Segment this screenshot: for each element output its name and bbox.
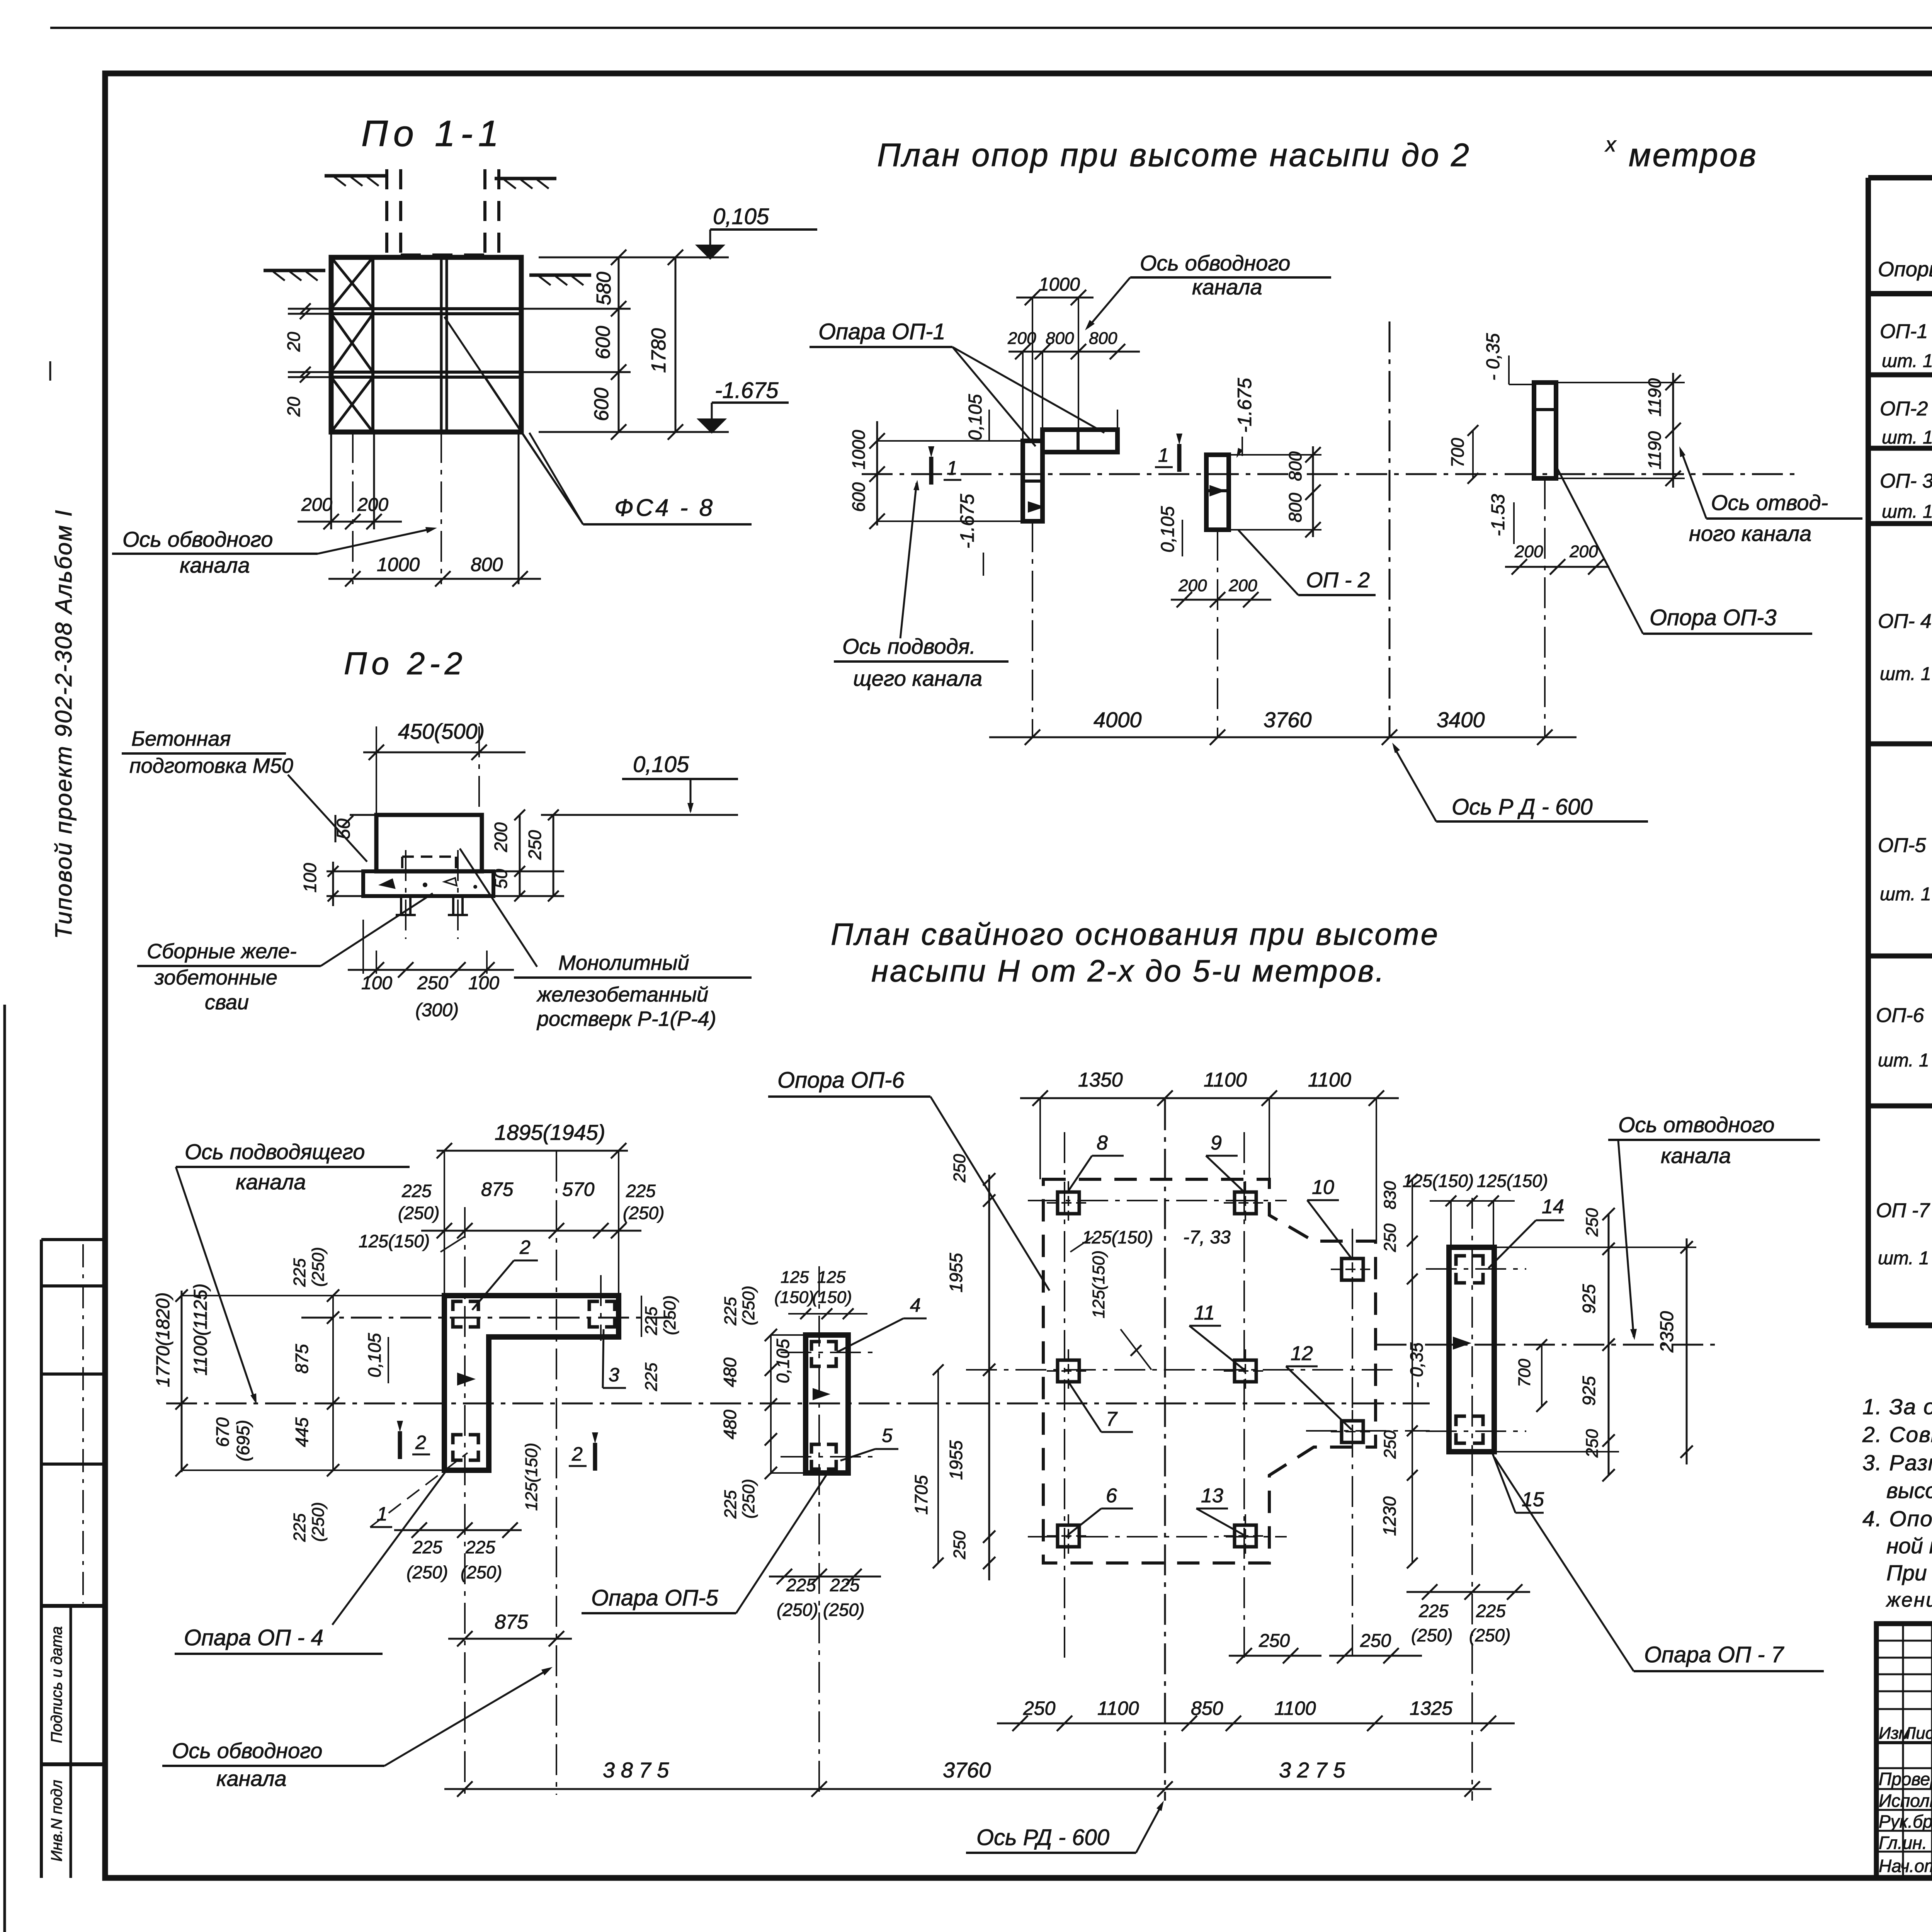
- svg-text:50: 50: [333, 818, 354, 839]
- svg-text:Опора ОП-3: Опора ОП-3: [1650, 605, 1777, 630]
- svg-text:- 0,35: - 0,35: [1483, 333, 1503, 381]
- svg-text:600: 600: [849, 482, 869, 512]
- svg-text:700: 700: [1447, 438, 1468, 468]
- svg-text:250: 250: [1583, 1208, 1602, 1237]
- svg-text:Типовой проект 902-2-308: Типовой проект 902-2-308 Альбом I: [51, 509, 77, 939]
- svg-text:Ось обводного: Ось обводного: [1140, 251, 1290, 275]
- svg-text:1100: 1100: [1204, 1069, 1247, 1091]
- svg-text:480: 480: [720, 1410, 740, 1439]
- svg-text:225: 225: [626, 1181, 656, 1201]
- svg-text:шт. 1: шт. 1: [1882, 502, 1932, 522]
- svg-text:50: 50: [491, 869, 511, 889]
- svg-text:125(150): 125(150): [1089, 1250, 1108, 1318]
- svg-text:щего канала: щего канала: [853, 666, 982, 690]
- svg-text:Опара ОП - 7: Опара ОП - 7: [1644, 1642, 1785, 1667]
- svg-text:План опор при высоте насып: План опор при высоте насыпи до 2: [877, 137, 1471, 173]
- svg-text:800: 800: [1089, 329, 1117, 348]
- svg-text:При привязке к конкретным: При привязке к конкретным условиям, глуб…: [1886, 1561, 1932, 1585]
- svg-text:Ось обводного: Ось обводного: [122, 527, 273, 551]
- svg-text:Бетонная: Бетонная: [131, 727, 231, 750]
- svg-text:125: 125: [781, 1268, 809, 1287]
- svg-text:метров: метров: [1629, 137, 1758, 173]
- svg-text:830: 830: [1381, 1181, 1400, 1209]
- svg-text:200: 200: [357, 495, 388, 515]
- svg-text:-1.675: -1.675: [1234, 378, 1255, 433]
- svg-text:800: 800: [1285, 451, 1305, 481]
- svg-text:Провер: Провер: [1879, 1769, 1932, 1789]
- svg-text:875: 875: [292, 1344, 312, 1374]
- svg-text:125(150): 125(150): [1477, 1171, 1548, 1191]
- svg-text:20: 20: [284, 396, 304, 417]
- svg-text:1770(1820): 1770(1820): [153, 1292, 173, 1387]
- svg-text:3 2 7 5: 3 2 7 5: [1279, 1758, 1345, 1782]
- svg-text:канала: канала: [180, 553, 250, 577]
- svg-text:580: 580: [593, 272, 615, 305]
- svg-text:ОП-2: ОП-2: [1880, 398, 1928, 420]
- svg-text:ОП- 4: ОП- 4: [1878, 610, 1932, 633]
- svg-text:1. За относительную отм. 0,: 1. За относительную отм. 0,00 принята аб…: [1862, 1395, 1932, 1419]
- svg-text:сваи: сваи: [205, 991, 249, 1014]
- svg-text:(250): (250): [406, 1562, 448, 1582]
- svg-text:250: 250: [1381, 1223, 1400, 1252]
- svg-text:0,105: 0,105: [633, 752, 689, 777]
- svg-text:1955: 1955: [946, 1253, 966, 1293]
- svg-text:570: 570: [562, 1179, 595, 1200]
- svg-text:канала: канала: [1661, 1143, 1731, 1168]
- svg-text:1: 1: [947, 457, 957, 479]
- svg-text:200: 200: [1178, 576, 1207, 595]
- svg-text:6: 6: [1106, 1485, 1117, 1507]
- svg-text:225: 225: [412, 1537, 442, 1557]
- svg-text:Ось Р Д - 600: Ось Р Д - 600: [1452, 794, 1593, 820]
- svg-text:1000: 1000: [849, 430, 869, 469]
- svg-text:10: 10: [1312, 1176, 1334, 1199]
- svg-text:8: 8: [1097, 1132, 1108, 1154]
- svg-text:1: 1: [1158, 444, 1169, 466]
- svg-text:(300): (300): [415, 1000, 459, 1020]
- svg-text:Опара ОП-1: Опара ОП-1: [818, 319, 946, 344]
- svg-text:250: 250: [1583, 1429, 1602, 1458]
- svg-text:225: 225: [290, 1513, 309, 1542]
- svg-text:0,105: 0,105: [713, 204, 769, 229]
- svg-text:9: 9: [1211, 1132, 1222, 1154]
- svg-text:200: 200: [491, 822, 511, 852]
- svg-text:250: 250: [1259, 1631, 1290, 1651]
- svg-text:ростверк Р-1(Р-4): ростверк Р-1(Р-4): [536, 1007, 716, 1031]
- svg-text:шт. 1: шт. 1: [1878, 1050, 1929, 1071]
- svg-text:2350: 2350: [1657, 1311, 1677, 1353]
- svg-text:Ось подводя.: Ось подводя.: [842, 634, 976, 658]
- svg-text:(250): (250): [398, 1203, 439, 1223]
- svg-text:(250): (250): [823, 1600, 864, 1620]
- svg-text:250: 250: [417, 973, 448, 993]
- svg-text:125(150): 125(150): [1403, 1171, 1474, 1191]
- svg-text:3760: 3760: [1264, 707, 1312, 732]
- svg-text:925: 925: [1579, 1284, 1599, 1314]
- svg-text:(250): (250): [461, 1562, 502, 1582]
- svg-text:зобетонные: зобетонные: [154, 966, 277, 989]
- svg-text:800: 800: [1046, 329, 1074, 348]
- svg-text:1190: 1190: [1645, 431, 1665, 469]
- svg-text:225: 225: [465, 1537, 495, 1557]
- svg-text:800: 800: [1285, 493, 1305, 522]
- svg-text:1955: 1955: [946, 1440, 966, 1480]
- svg-text:125(150): 125(150): [522, 1443, 541, 1511]
- svg-text:250: 250: [950, 1531, 969, 1560]
- svg-text:Опара ОП - 4: Опара ОП - 4: [184, 1625, 323, 1650]
- svg-text:250: 250: [950, 1154, 969, 1183]
- svg-text:1100: 1100: [1308, 1069, 1351, 1091]
- svg-text:875: 875: [481, 1179, 514, 1200]
- svg-text:Подпись и дата: Подпись и дата: [48, 1626, 65, 1743]
- svg-text:0,105: 0,105: [965, 394, 986, 440]
- svg-text:Ось подводящего: Ось подводящего: [185, 1139, 365, 1164]
- svg-text:450(500): 450(500): [398, 719, 485, 743]
- svg-text:200: 200: [1569, 542, 1598, 561]
- svg-text:канала: канала: [1192, 275, 1262, 299]
- svg-text:225: 225: [830, 1575, 860, 1595]
- svg-text:Опара ОП-5: Опара ОП-5: [591, 1585, 718, 1611]
- svg-text:ОП-5: ОП-5: [1878, 834, 1926, 857]
- svg-text:Опоры: Опоры: [1878, 258, 1932, 281]
- svg-text:Нач.отд: Нач.отд: [1879, 1856, 1932, 1876]
- svg-text:225: 225: [401, 1181, 432, 1201]
- svg-text:- 0,35: - 0,35: [1406, 1342, 1427, 1388]
- svg-text:225: 225: [642, 1306, 661, 1335]
- svg-text:ного канала: ного канала: [1689, 521, 1811, 546]
- svg-text:20: 20: [284, 332, 304, 352]
- svg-text:4. Опоры ОП-1, ОП-2, ОП-3 пр: 4. Опоры ОП-1, ОП-2, ОП-3 приняты для ра…: [1862, 1507, 1932, 1531]
- svg-text:2. Совместна с данным черте: 2. Совместна с данным чертежом см. лист …: [1862, 1422, 1932, 1447]
- svg-text:225: 225: [721, 1297, 740, 1326]
- svg-text:225: 225: [721, 1490, 740, 1519]
- svg-text:2: 2: [519, 1236, 531, 1258]
- svg-text:ОП-6: ОП-6: [1876, 1004, 1924, 1027]
- svg-text:насыпи Н от 2-х до 5-и м: насыпи Н от 2-х до 5-и метров.: [871, 954, 1386, 988]
- svg-text:жения опор ОП1÷ОП3 корректир: жения опор ОП1÷ОП3 корректируется в зави…: [1886, 1589, 1932, 1611]
- svg-text:высоты насыпи Н = 5м.: высоты насыпи Н = 5м.: [1886, 1478, 1932, 1503]
- svg-text:200: 200: [1228, 576, 1257, 595]
- svg-text:(250): (250): [660, 1295, 679, 1335]
- svg-text:канала: канала: [216, 1766, 287, 1791]
- svg-text:1190: 1190: [1645, 378, 1665, 417]
- svg-text:1780: 1780: [648, 328, 670, 373]
- svg-text:125(150): 125(150): [359, 1231, 430, 1251]
- svg-text:1895(1945): 1895(1945): [495, 1120, 605, 1145]
- svg-text:200: 200: [301, 495, 332, 515]
- svg-text:(150): (150): [812, 1288, 852, 1307]
- svg-text:х: х: [1604, 133, 1617, 156]
- svg-text:925: 925: [1579, 1376, 1599, 1406]
- svg-text:ОП-1: ОП-1: [1880, 320, 1928, 343]
- svg-text:Исполн.: Исполн.: [1879, 1791, 1932, 1811]
- svg-text:1100: 1100: [1097, 1697, 1139, 1719]
- svg-text:подготовка М50: подготовка М50: [129, 754, 293, 777]
- svg-text:250: 250: [1360, 1631, 1391, 1651]
- svg-text:По 1-1: По 1-1: [361, 113, 504, 154]
- svg-text:3400: 3400: [1437, 707, 1485, 732]
- svg-text:445: 445: [292, 1417, 312, 1447]
- svg-text:План свайного основания при: План свайного основания при высоте: [831, 917, 1439, 951]
- svg-text:ОП - 2: ОП - 2: [1306, 568, 1370, 592]
- svg-text:3760: 3760: [943, 1758, 991, 1782]
- svg-text:2: 2: [415, 1432, 426, 1453]
- svg-text:канала: канала: [236, 1170, 306, 1194]
- svg-text:(250): (250): [309, 1502, 328, 1542]
- svg-text:3. Размеры в скобках и рос: 3. Размеры в скобках и ростверки Р-4, Р-…: [1862, 1451, 1932, 1475]
- svg-text:1100(1125): 1100(1125): [190, 1284, 211, 1376]
- svg-text:Ось отводного: Ось отводного: [1618, 1112, 1775, 1137]
- svg-text:480: 480: [720, 1357, 740, 1387]
- svg-text:Монолитный: Монолитный: [558, 951, 689, 975]
- svg-text:1705: 1705: [911, 1475, 931, 1515]
- svg-text:(150): (150): [774, 1288, 814, 1307]
- svg-text:100: 100: [468, 973, 499, 993]
- svg-text:-1.53: -1.53: [1488, 494, 1509, 536]
- svg-text:225: 225: [1418, 1601, 1449, 1621]
- svg-text:250: 250: [1381, 1430, 1400, 1459]
- svg-text:100: 100: [361, 973, 392, 993]
- svg-text:125: 125: [817, 1268, 846, 1287]
- svg-text:Рук.бр.: Рук.бр.: [1879, 1811, 1932, 1832]
- svg-text:1325: 1325: [1410, 1697, 1452, 1719]
- svg-text:0,105: 0,105: [364, 1333, 384, 1378]
- svg-text:225: 225: [290, 1258, 309, 1287]
- svg-text:шт. 1: шт. 1: [1878, 1248, 1929, 1269]
- svg-text:(250): (250): [623, 1203, 664, 1223]
- svg-text:11: 11: [1194, 1302, 1215, 1324]
- svg-text:600: 600: [590, 388, 613, 421]
- svg-text:200: 200: [1514, 542, 1543, 561]
- svg-text:14: 14: [1542, 1196, 1564, 1218]
- svg-text:100: 100: [300, 863, 320, 893]
- svg-text:1000: 1000: [377, 554, 420, 575]
- svg-text:Ось отвод-: Ось отвод-: [1711, 490, 1828, 515]
- svg-text:Ось обводного: Ось обводного: [172, 1738, 322, 1763]
- svg-text:2: 2: [571, 1443, 583, 1465]
- svg-text:13: 13: [1201, 1485, 1223, 1507]
- svg-text:ОП- 3: ОП- 3: [1880, 470, 1932, 492]
- svg-text:Ось РД - 600: Ось РД - 600: [976, 1825, 1109, 1850]
- svg-text:0,105: 0,105: [1158, 506, 1178, 553]
- svg-text:Инв.N подл: Инв.N подл: [48, 1780, 65, 1862]
- svg-text:1000: 1000: [1039, 274, 1080, 295]
- svg-text:600: 600: [592, 326, 614, 359]
- svg-text:1100: 1100: [1274, 1697, 1316, 1719]
- svg-text:225: 225: [786, 1575, 816, 1595]
- svg-text:шт. 1: шт. 1: [1882, 427, 1932, 448]
- svg-text:(250): (250): [739, 1479, 758, 1519]
- svg-text:3 8 7 5: 3 8 7 5: [603, 1758, 669, 1782]
- svg-text:-1.675: -1.675: [956, 494, 978, 549]
- svg-text:(250): (250): [777, 1600, 818, 1620]
- svg-text:1350: 1350: [1078, 1069, 1123, 1091]
- svg-text:(250): (250): [739, 1286, 758, 1325]
- svg-text:4: 4: [910, 1294, 921, 1316]
- svg-text:670: 670: [213, 1417, 233, 1447]
- svg-text:250: 250: [525, 830, 545, 860]
- svg-text:4000: 4000: [1094, 707, 1142, 732]
- svg-text:Лист: Лист: [1903, 1724, 1932, 1743]
- svg-text:200: 200: [1007, 329, 1036, 348]
- svg-text:(250): (250): [1411, 1625, 1452, 1645]
- svg-text:12: 12: [1291, 1342, 1313, 1365]
- svg-text:225: 225: [642, 1362, 661, 1391]
- svg-text:Опора ОП-6: Опора ОП-6: [777, 1068, 905, 1093]
- svg-text:5: 5: [882, 1425, 893, 1446]
- svg-text:-1.675: -1.675: [715, 378, 779, 403]
- svg-text:3: 3: [609, 1364, 619, 1386]
- svg-text:По 2-2: По 2-2: [344, 646, 467, 681]
- svg-text:шт. 1: шт. 1: [1882, 351, 1932, 371]
- svg-text:шт. 1: шт. 1: [1880, 884, 1931, 905]
- svg-text:Сборные желе-: Сборные желе-: [147, 940, 297, 963]
- svg-text:железобетанный: железобетанный: [536, 983, 708, 1006]
- svg-text:0,105: 0,105: [773, 1338, 793, 1383]
- svg-text:700: 700: [1515, 1359, 1534, 1387]
- svg-text:15: 15: [1522, 1488, 1544, 1511]
- svg-text:ОП -7: ОП -7: [1876, 1199, 1930, 1222]
- svg-text:(250): (250): [1469, 1625, 1510, 1645]
- svg-text:Гл.ин. пр: Гл.ин. пр: [1879, 1833, 1932, 1853]
- svg-text:(250): (250): [309, 1247, 328, 1287]
- svg-text:ФС4 - 8: ФС4 - 8: [614, 495, 715, 521]
- svg-text:1230: 1230: [1379, 1496, 1400, 1536]
- svg-text:ной температуры - 30°.: ной температуры - 30°.: [1886, 1534, 1932, 1558]
- svg-text:7: 7: [1106, 1408, 1118, 1430]
- svg-text:(695): (695): [233, 1420, 253, 1461]
- svg-text:225: 225: [1476, 1601, 1506, 1621]
- svg-text:800: 800: [471, 554, 503, 575]
- svg-text:шт. 1: шт. 1: [1880, 664, 1931, 684]
- svg-text:875: 875: [495, 1611, 529, 1633]
- svg-text:-7, 33: -7, 33: [1183, 1227, 1231, 1248]
